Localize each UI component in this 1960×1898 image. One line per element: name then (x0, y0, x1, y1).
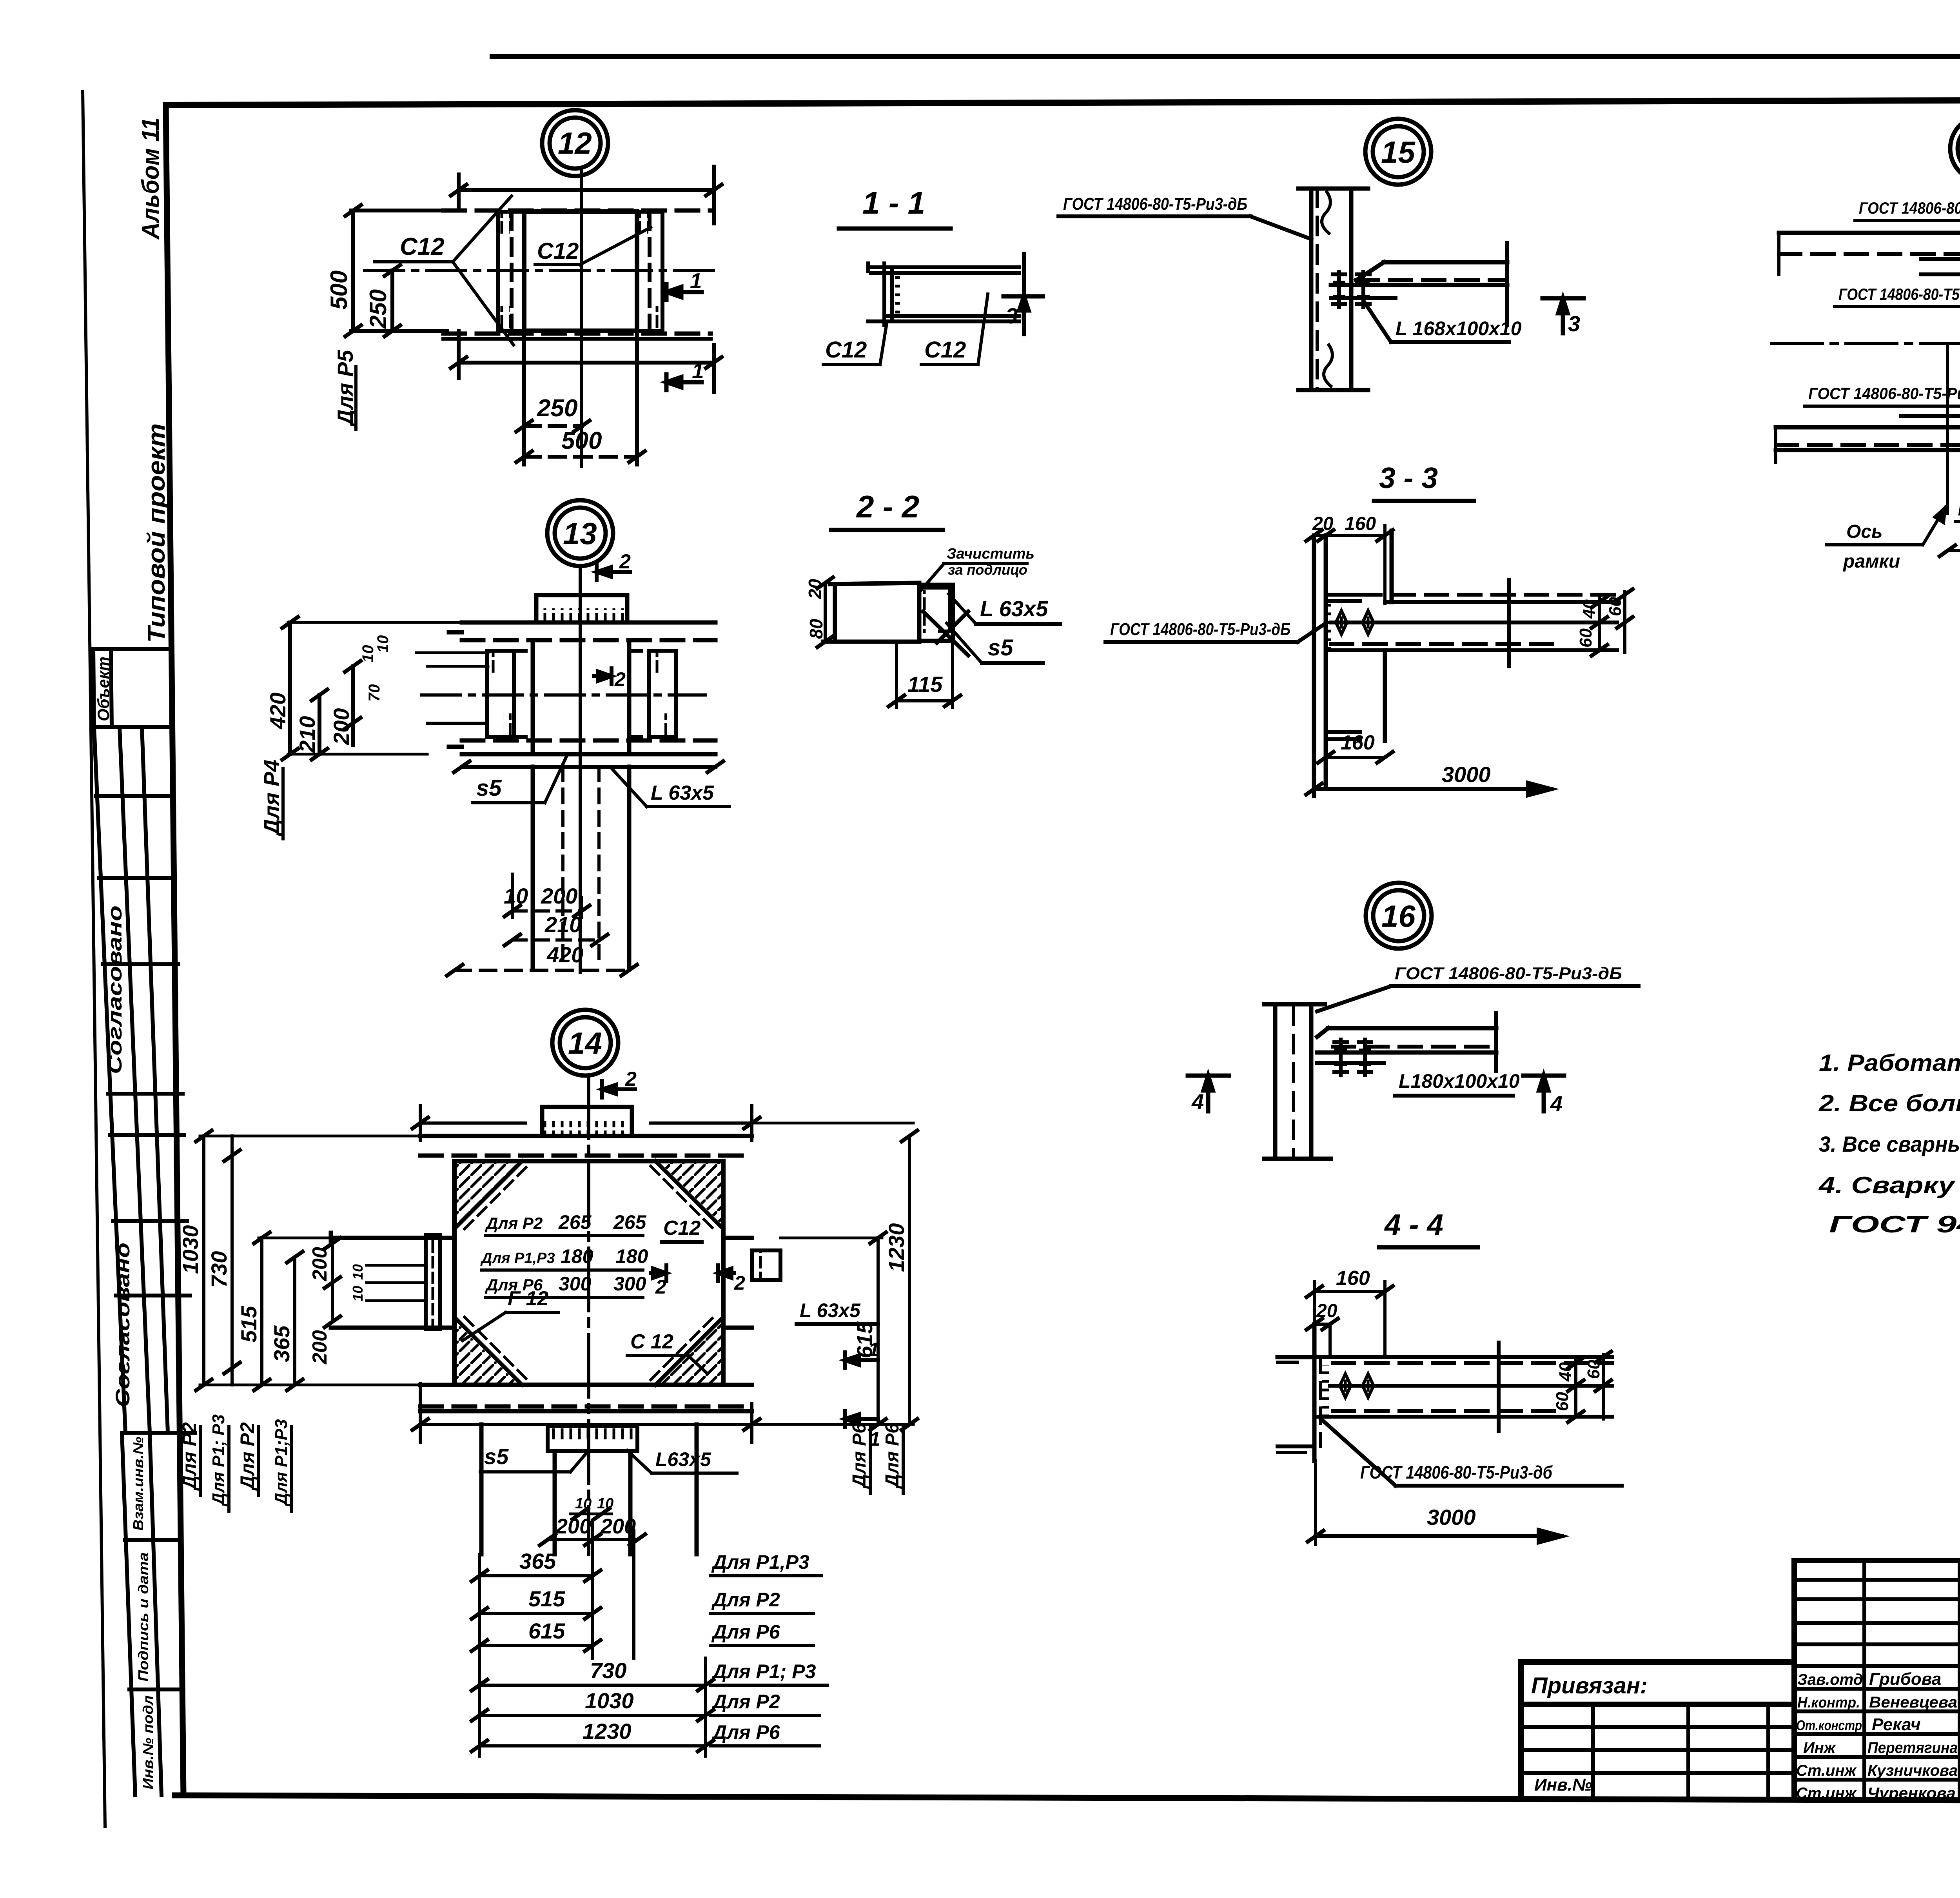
detail 13 dim 420 (447, 965, 637, 976)
svg-text:3. Все сварные швы по ГОСТ: 3. Все сварные швы по ГОСТ 14806-80-Т5-Р… (1819, 1132, 1960, 1156)
detail 14 left rotated labels Для (178, 1414, 291, 1507)
svg-text:1230: 1230 (583, 1719, 632, 1744)
svg-text:s5: s5 (476, 775, 502, 801)
svg-text:10: 10 (350, 1286, 366, 1301)
svg-text:4: 4 (1550, 1091, 1563, 1116)
svg-text:615: 615 (852, 1321, 877, 1358)
detail 12 horizontal centerline (365, 269, 719, 272)
svg-text:Для Р1;Р3: Для Р1;Р3 (272, 1419, 291, 1507)
svg-text:Для Р2: Для Р2 (711, 1589, 780, 1611)
detail 12 dim 500 bottom (516, 451, 645, 462)
detail 15 section mark 3 right (1543, 298, 1584, 333)
svg-text:С12: С12 (400, 233, 445, 260)
svg-text:Веневцева: Веневцева (1869, 1694, 1957, 1711)
svg-text:ГОСТ 14806-80-Т5-Ри3-дБ: ГОСТ 14806-80-Т5-Ри3-дБ (1859, 199, 1960, 217)
svg-text:10: 10 (374, 635, 392, 653)
detail 14 left dims rotated 1030 (196, 1130, 420, 1390)
svg-text:Для Р1; Р3: Для Р1; Р3 (711, 1660, 816, 1682)
svg-text:2. Все болты М16.: 2. Все болты М16. (1818, 1090, 1960, 1116)
svg-text:115: 115 (907, 672, 943, 697)
detail 12 dim 250 left rotated (385, 265, 400, 336)
section 3-3 bolt diamonds (1331, 611, 1352, 634)
detail 14 section mark 1 right (845, 1352, 878, 1368)
detail 14 corner gussets (454, 1161, 723, 1385)
svg-text:200: 200 (600, 1515, 636, 1538)
svg-text:180: 180 (615, 1245, 648, 1267)
svg-text:Н.контр.: Н.контр. (1797, 1695, 1860, 1711)
detail 12 section mark 1 upper (666, 284, 702, 300)
svg-text:Кузничкова: Кузничкова (1867, 1762, 1958, 1779)
svg-text:2 - 2: 2 - 2 (856, 489, 919, 524)
section 2-2 cross mark (923, 611, 968, 655)
svg-text:14: 14 (568, 1026, 602, 1060)
svg-text:300: 300 (613, 1273, 646, 1295)
svg-text:265: 265 (558, 1211, 592, 1233)
detail 15 bubble (1365, 119, 1431, 185)
detail 12 bubble (542, 110, 608, 176)
detail 13 bottom beam lower edge (454, 761, 723, 772)
section 3-3 top angle stub (1326, 595, 1360, 601)
svg-text:Для Р2: Для Р2 (485, 1214, 543, 1232)
detail 13 horizontal centerline (421, 693, 706, 697)
sheet left edge line (83, 91, 105, 1827)
svg-text:2: 2 (614, 668, 626, 690)
svg-text:L 63x5: L 63x5 (651, 782, 714, 804)
section 4-4 beam lines (1314, 1357, 1612, 1417)
svg-text:Для Р4: Для Р4 (259, 760, 284, 836)
detail 13 top beam (449, 622, 715, 640)
svg-text:200: 200 (329, 708, 354, 745)
svg-text:200: 200 (309, 1330, 331, 1365)
detail 13 top plate (536, 595, 627, 622)
svg-text:Альбом 11: Альбом 11 (137, 118, 164, 240)
svg-text:20: 20 (1316, 1301, 1338, 1321)
svg-text:300: 300 (559, 1273, 592, 1295)
svg-text:40: 40 (1579, 599, 1599, 619)
detail 12 centerline (580, 169, 583, 466)
svg-text:3000: 3000 (1442, 762, 1491, 787)
svg-text:40: 40 (1556, 1362, 1575, 1382)
svg-text:200: 200 (309, 1247, 331, 1281)
svg-text:730: 730 (207, 1251, 231, 1288)
svg-text:s5: s5 (988, 635, 1013, 660)
detail 14 lower column (481, 1424, 697, 1554)
title block: signature table (1794, 1560, 1960, 1799)
detail 12 right side plate (637, 212, 662, 331)
svg-text:20: 20 (805, 579, 825, 599)
detail 13 bottom dims 10 200 (505, 874, 590, 917)
svg-text:420: 420 (265, 693, 290, 729)
svg-text:Для Р2: Для Р2 (178, 1422, 200, 1491)
svg-text:ГОСТ 9467-75.: ГОСТ 9467-75. (1829, 1211, 1960, 1238)
svg-text:Зав.отд: Зав.отд (1797, 1671, 1863, 1688)
svg-text:Объект: Объект (94, 657, 113, 721)
svg-text:200: 200 (541, 884, 577, 908)
section 1-1 channel web (868, 263, 900, 325)
svg-text:Для Р2: Для Р2 (711, 1691, 780, 1713)
detail 12 bottom flange hidden line (443, 332, 711, 336)
svg-text:ГОСТ 14806-80-Т5-Ри3-дБ: ГОСТ 14806-80-Т5-Ри3-дБ (1395, 964, 1622, 983)
section 1-1 top flange (868, 267, 1019, 321)
svg-text:160: 160 (1336, 1267, 1370, 1290)
detail 14 right dim 615 rotated (780, 1232, 886, 1430)
svg-text:L 168x100x10: L 168x100x10 (1396, 318, 1522, 339)
detail 14 bottom dimension line (412, 1384, 760, 1443)
svg-text:Для Р6: Для Р6 (711, 1721, 780, 1743)
detail 13 bubble (547, 500, 613, 566)
svg-text:2: 2 (619, 550, 631, 573)
svg-text:От.констр: От.констр (1796, 1717, 1862, 1733)
svg-text:420: 420 (546, 942, 583, 967)
detail 13 dim 210 (505, 934, 608, 945)
section 2-2 plate (823, 583, 919, 642)
detail 14 section mark 1 bottom right (845, 1411, 878, 1427)
svg-text:ГОСТ 14806-80-Т5-Ри3-дБ: ГОСТ 14806-80-Т5-Ри3-дБ (1808, 384, 1960, 403)
top sheet line (492, 54, 1960, 59)
svg-text:Взам.инв.№: Взам.инв.№ (130, 1437, 146, 1531)
detail 12 bottom dimension line (451, 331, 722, 392)
svg-text:160: 160 (1341, 731, 1375, 754)
detail 16 section mark 4 left (1188, 1076, 1229, 1111)
section 3-3 weld hatch on plate (1327, 604, 1334, 649)
svg-text:60: 60 (1576, 628, 1595, 648)
section 4-4 weld hatch (1322, 1365, 1329, 1415)
svg-text:210: 210 (295, 716, 319, 753)
detail 11 center axis (1771, 342, 1960, 345)
svg-text:60: 60 (1584, 1360, 1603, 1379)
svg-text:Для Р1,Р3: Для Р1,Р3 (480, 1250, 555, 1267)
svg-text:С12: С12 (537, 238, 579, 264)
svg-text:500: 500 (326, 270, 352, 310)
detail 14 right dim 1230 rotated (752, 1123, 917, 1430)
svg-text:265: 265 (613, 1211, 647, 1233)
svg-text:16: 16 (1381, 899, 1416, 933)
svg-text:515: 515 (236, 1306, 261, 1343)
svg-text:Для Р2: Для Р2 (236, 1422, 258, 1491)
detail 14 dim ladder verticals (479, 1521, 706, 1756)
svg-text:Согласовано: Согласовано (112, 1243, 134, 1407)
section 3-3 beam lines (1326, 595, 1617, 650)
svg-text:80: 80 (806, 619, 826, 639)
svg-text:365: 365 (269, 1325, 294, 1362)
svg-text:200: 200 (555, 1515, 591, 1538)
svg-text:Инж: Инж (1803, 1739, 1837, 1756)
svg-text:500: 500 (561, 427, 602, 454)
section 4-4 right dims 40 60 60 (1568, 1352, 1611, 1422)
svg-text:Г 12: Г 12 (508, 1287, 548, 1310)
svg-text:3 - 3: 3 - 3 (1379, 461, 1438, 494)
detail 16 beam (1317, 1013, 1496, 1071)
detail 15 section mark 3 left (1004, 296, 1043, 318)
detail 14 ladder labels right (711, 1551, 816, 1743)
svg-text:1. Работать совместно с ли: 1. Работать совместно с листом 20. (1819, 1050, 1960, 1076)
detail 13 right flange plates (629, 651, 676, 737)
svg-text:Инв.№: Инв.№ (1534, 1775, 1592, 1795)
detail 13 section mark 2 top (597, 564, 630, 580)
section 1-1 right end (1022, 254, 1026, 334)
svg-text:Для Р6: Для Р6 (711, 1621, 780, 1643)
detail 12 column square (524, 212, 637, 331)
detail 14 bottom beam (420, 1385, 752, 1411)
detail 14 bottom plate (548, 1426, 637, 1554)
svg-text:2: 2 (625, 1068, 637, 1091)
detail 12 dim 500 left rotated (345, 205, 447, 336)
title block: Привязан table (1521, 1662, 1794, 1796)
svg-text:1030: 1030 (585, 1688, 634, 1713)
detail 13 bottom beam (449, 740, 715, 754)
detail 14 inner dim table row 2 (480, 1245, 648, 1267)
svg-text:Ось: Ось (1846, 521, 1883, 542)
detail 12 dim 250 bottom (516, 331, 637, 465)
detail 14 left dim 515 (254, 1232, 331, 1390)
svg-text:L180x100x10: L180x100x10 (1399, 1070, 1520, 1092)
svg-text:С12: С12 (825, 337, 867, 363)
detail 15 beam (1331, 243, 1507, 325)
svg-text:180: 180 (561, 1245, 593, 1267)
section 3-3 gusset vertical (1385, 531, 1392, 741)
svg-text:рамки: рамки (1842, 551, 1900, 572)
svg-text:С12: С12 (924, 337, 966, 363)
detail 11 bubble (1950, 116, 1960, 181)
svg-text:160: 160 (1345, 514, 1376, 534)
svg-text:С12: С12 (663, 1217, 701, 1239)
detail 14 right beam stub (723, 1238, 780, 1328)
section 4-4 mid vertical (1497, 1343, 1501, 1431)
svg-text:1: 1 (692, 359, 704, 383)
svg-text:12: 12 (558, 126, 592, 160)
svg-text:4 - 4: 4 - 4 (1384, 1208, 1443, 1241)
detail 14 left dim 730 (224, 1136, 240, 1385)
svg-text:1: 1 (690, 269, 702, 293)
svg-text:2: 2 (734, 1272, 745, 1294)
detail 14 big square plate (454, 1161, 723, 1385)
svg-text:515: 515 (528, 1586, 565, 1611)
svg-text:2: 2 (655, 1276, 666, 1298)
svg-text:L 63x5: L 63x5 (800, 1299, 861, 1321)
detail 13 left flange plates (487, 651, 533, 737)
detail 16 section mark 4 right (1523, 1076, 1564, 1111)
svg-text:1 - 1: 1 - 1 (862, 185, 925, 220)
svg-text:13: 13 (563, 516, 597, 551)
svg-text:365: 365 (519, 1549, 556, 1573)
detail 14 top dimension line (412, 1105, 760, 1141)
svg-text:1230: 1230 (884, 1223, 909, 1272)
svg-text:3000: 3000 (1427, 1505, 1476, 1530)
detail 16 bubble (1366, 883, 1432, 949)
detail 12 top flange hidden line (443, 209, 711, 213)
section 3-3 right dims 40 60 60 (1592, 589, 1633, 656)
svg-text:ГОСТ 14806-80-Т5-Ри3-дБ: ГОСТ 14806-80-Т5-Ри3-дБ (1110, 620, 1290, 639)
svg-text:ГОСТ 14806-80-Т5-Ри3-дБ: ГОСТ 14806-80-Т5-Ри3-дБ (1838, 285, 1960, 303)
svg-text:Рекач: Рекач (1872, 1715, 1921, 1734)
detail 14 left dim 365 (287, 1252, 303, 1390)
svg-text:615: 615 (528, 1619, 565, 1643)
svg-text:Инв.№ подл: Инв.№ подл (140, 1695, 156, 1789)
detail 13 left dim 210 rotated (312, 690, 327, 760)
section 2-2 dim 115 (889, 642, 960, 708)
detail 12 section mark 1 lower (666, 374, 702, 390)
detail 14 section mark 2 top (602, 1081, 635, 1098)
detail 11 lower beam (1776, 416, 1960, 463)
svg-text:L63x5: L63x5 (655, 1448, 711, 1470)
svg-text:Согласовано: Согласовано (104, 905, 126, 1074)
notes (1818, 1050, 1960, 1238)
detail 13 lower column (533, 767, 629, 968)
svg-text:1030: 1030 (178, 1225, 203, 1274)
detail 11 upper beam (1779, 233, 1960, 274)
detail 14 left beam stub (331, 1233, 454, 1329)
svg-text:Зачистить: Зачистить (947, 546, 1034, 562)
detail 15 bolts (1333, 272, 1345, 307)
section 4-4 bolt diamonds (1335, 1374, 1356, 1397)
detail 14 left stub dims 200 200 (325, 1238, 340, 1327)
svg-text:10: 10 (504, 884, 528, 908)
detail 14 centerline (587, 1076, 590, 1554)
detail 14 top beam (420, 1136, 752, 1156)
svg-text:ГОСТ 14806-80-Т5Ри3-в: ГОСТ 14806-80-Т5Ри3-в (1958, 503, 1960, 519)
svg-text:15: 15 (1381, 135, 1416, 169)
detail 13 left dim 420 rotated (282, 617, 462, 760)
detail 16 bolts (1334, 1040, 1347, 1075)
svg-text:Для Р6: Для Р6 (882, 1423, 903, 1489)
section 3-3 bottom angle stub (1326, 732, 1360, 739)
detail 16 column (1264, 1004, 1331, 1159)
svg-text:ГОСТ 14806-80-Т5-Ри3-дБ: ГОСТ 14806-80-Т5-Ри3-дБ (1063, 194, 1247, 214)
detail 14 bubble (552, 1010, 618, 1076)
svg-text:60: 60 (1606, 597, 1625, 616)
detail 12 bottom flange solid line (443, 337, 711, 341)
main frame (166, 99, 1960, 105)
detail 14 inner dim table row 3 (485, 1273, 646, 1295)
svg-text:730: 730 (590, 1658, 626, 1683)
section 4-4 left angle (1278, 1324, 1320, 1461)
section 2-2 channel with angle (919, 585, 953, 641)
svg-text:s5: s5 (484, 1444, 509, 1469)
detail 13 left small extension lines (427, 722, 487, 725)
sidebar box Объект (93, 649, 170, 727)
detail 14 right rotated labels (849, 1423, 903, 1489)
svg-text:3: 3 (1568, 311, 1580, 336)
sidebar rotated text Альбом II (137, 118, 170, 643)
detail 14 inner dim table row 1 (485, 1211, 647, 1233)
detail 15 column (1298, 189, 1368, 390)
svg-text:210: 210 (544, 912, 581, 937)
svg-text:10: 10 (350, 1264, 366, 1280)
svg-text:Типовой проект: Типовой проект (143, 423, 170, 643)
svg-text:60: 60 (1553, 1392, 1572, 1411)
sidebar Согласовано table (94, 727, 195, 1433)
detail 12 top dimension line (451, 167, 722, 223)
detail 13 left dim 200 rotated (345, 661, 361, 745)
svg-text:Ст.инж: Ст.инж (1796, 1785, 1857, 1802)
detail 13 centerline (579, 566, 582, 972)
svg-text:Ст.инж: Ст.инж (1796, 1762, 1857, 1779)
svg-text:Чуренкова: Чуренкова (1867, 1785, 1956, 1802)
detail 13 section mark 2 side (594, 668, 612, 684)
svg-text:Для Р1; Р3: Для Р1; Р3 (209, 1414, 228, 1507)
detail 14 section marks 2 bottom pair (651, 1265, 666, 1281)
svg-text:Грибова: Грибова (1869, 1669, 1941, 1689)
svg-text:250: 250 (365, 289, 391, 329)
svg-text:Для Р5: Для Р5 (333, 350, 358, 427)
detail 12 left side plate (498, 212, 524, 331)
svg-text:Перетягина: Перетягина (1867, 1739, 1958, 1756)
svg-text:Подпись и дата: Подпись и дата (135, 1552, 151, 1682)
svg-text:3: 3 (1005, 303, 1018, 328)
sidebar bottom boxes (122, 1433, 182, 1795)
svg-text:С 12: С 12 (630, 1330, 673, 1353)
svg-text:L 63x5: L 63x5 (980, 596, 1048, 621)
section 3-3 mid vertical line (1507, 580, 1511, 666)
svg-text:4: 4 (1191, 1089, 1204, 1114)
svg-text:4. Сварку производить элект: 4. Сварку производить электродами Э42 (1818, 1172, 1960, 1198)
svg-text:Для Р6: Для Р6 (849, 1423, 870, 1489)
detail 14 top plate (542, 1107, 632, 1136)
svg-text:250: 250 (537, 395, 577, 422)
section 3-3 vertical plate (1314, 535, 1326, 796)
svg-text:70: 70 (366, 684, 383, 702)
svg-text:Привязан:: Привязан: (1531, 1673, 1648, 1698)
detail 13 column webs (533, 640, 629, 754)
svg-text:Для Р1,Р3: Для Р1,Р3 (711, 1551, 809, 1573)
